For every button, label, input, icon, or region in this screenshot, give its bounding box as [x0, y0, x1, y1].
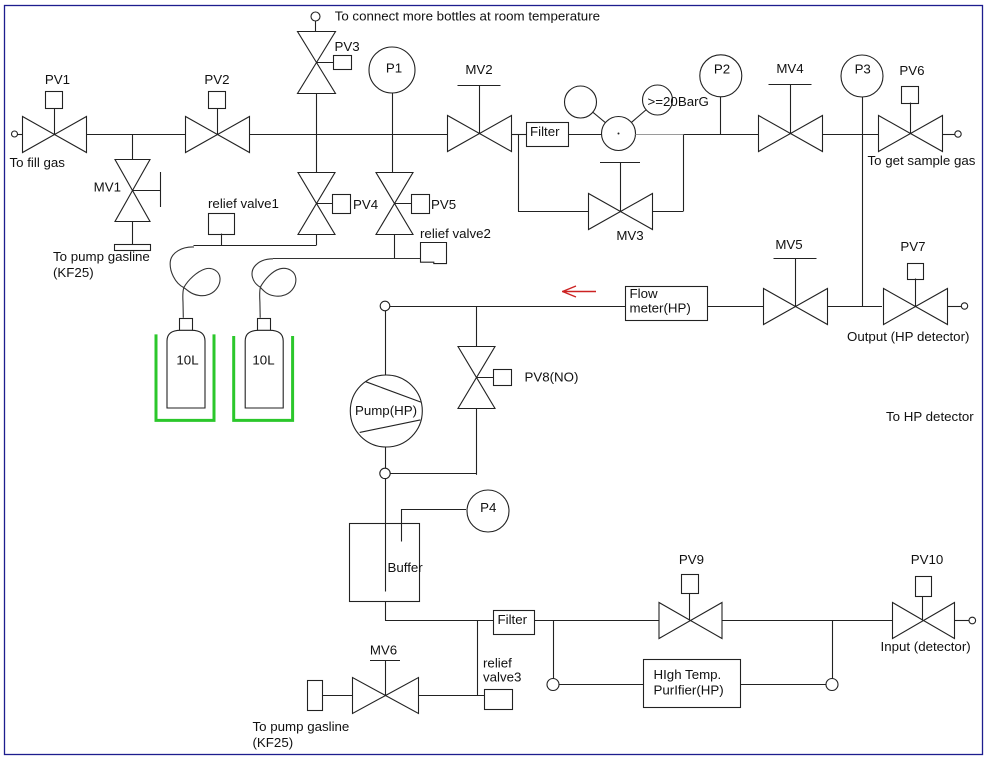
svg-text:To pump gasline: To pump gasline	[253, 719, 350, 734]
svg-text:Filter: Filter	[498, 612, 528, 627]
svg-text:PV6: PV6	[899, 63, 924, 78]
svg-text:P2: P2	[714, 61, 730, 76]
svg-text:To fill gas: To fill gas	[10, 155, 66, 170]
svg-text:relief valve2: relief valve2	[420, 226, 491, 241]
svg-text:To HP detector: To HP detector	[886, 409, 974, 424]
svg-text:Output (HP detector): Output (HP detector)	[847, 329, 969, 344]
svg-text:PV1: PV1	[45, 72, 70, 87]
svg-text:P3: P3	[855, 61, 871, 76]
svg-text:Filter: Filter	[530, 124, 560, 139]
svg-text:>=20BarG: >=20BarG	[648, 94, 709, 109]
svg-text:(KF25): (KF25)	[53, 265, 94, 280]
svg-text:PurIfier(HP): PurIfier(HP)	[654, 682, 724, 697]
svg-text:MV4: MV4	[776, 61, 803, 76]
svg-text:MV6: MV6	[370, 643, 397, 658]
svg-text:PV5: PV5	[431, 197, 456, 212]
svg-text:PV7: PV7	[900, 239, 925, 254]
svg-text:P1: P1	[386, 61, 402, 76]
svg-text:P4: P4	[480, 500, 496, 515]
svg-text:Input (detector): Input (detector)	[881, 639, 971, 654]
svg-text:valve3: valve3	[483, 670, 521, 685]
svg-text:relief: relief	[483, 656, 512, 671]
svg-text:MV1: MV1	[94, 180, 121, 195]
svg-text:PV9: PV9	[679, 552, 704, 567]
svg-text:PV4: PV4	[353, 197, 378, 212]
svg-text:10L: 10L	[176, 352, 198, 367]
svg-text:PV2: PV2	[204, 72, 229, 87]
svg-text:relief valve1: relief valve1	[208, 196, 279, 211]
svg-text:(KF25): (KF25)	[253, 735, 294, 750]
svg-text:PV3: PV3	[335, 39, 360, 54]
svg-text:Pump(HP): Pump(HP)	[355, 403, 417, 418]
svg-text:To get sample gas: To get sample gas	[868, 153, 976, 168]
svg-text:PV10: PV10	[911, 552, 944, 567]
svg-text:meter(HP): meter(HP)	[630, 300, 691, 315]
svg-text:10L: 10L	[252, 352, 274, 367]
svg-text:To pump gasline: To pump gasline	[53, 249, 150, 264]
svg-text:MV5: MV5	[775, 237, 802, 252]
svg-text:HIgh Temp.: HIgh Temp.	[654, 667, 722, 682]
svg-text:PV8(NO): PV8(NO)	[525, 370, 579, 385]
svg-text:MV2: MV2	[465, 62, 492, 77]
svg-text:Flow: Flow	[630, 286, 658, 301]
svg-text:To connect more bottles at roo: To connect more bottles at room temperat…	[335, 8, 600, 23]
svg-text:Buffer: Buffer	[388, 560, 424, 575]
svg-text:MV3: MV3	[616, 228, 643, 243]
